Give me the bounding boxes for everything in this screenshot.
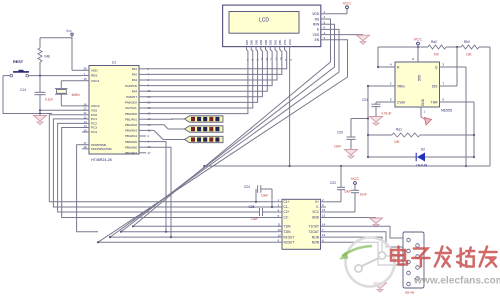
svg-text:PA4: PA4: [132, 89, 138, 93]
svg-text:7: 7: [443, 82, 445, 86]
wire R2IN: [326, 242, 406, 265]
wire LCD VDD to VCC: [329, 9, 347, 14]
svg-text:Rb0: Rb0: [464, 40, 470, 44]
svg-text:PA1: PA1: [132, 67, 138, 71]
svg-text:GND: GND: [421, 98, 425, 106]
svg-text:Ra1: Ra1: [396, 128, 402, 132]
resistor Rb0: [461, 40, 490, 57]
svg-text:PB0/AN0: PB0/AN0: [125, 112, 137, 116]
svg-text:PB1/AN1: PB1/AN1: [125, 117, 137, 121]
wire LCD col 10: [289, 47, 291, 166]
svg-text:D2: D2: [421, 148, 425, 152]
power VCC4: [326, 176, 367, 212]
wire LCD ctrl 4: [97, 40, 348, 243]
svg-text:1: 1: [424, 110, 426, 114]
wire PA3-DB5 data bus: [146, 47, 277, 80]
svg-text:T2OUT: T2OUT: [309, 230, 320, 234]
svg-text:CVolt: CVolt: [397, 100, 405, 104]
svg-text:5: 5: [390, 98, 392, 102]
wire key3: [146, 130, 185, 139]
svg-text:12: 12: [84, 115, 88, 119]
IC U2 NE555 timer: [390, 57, 452, 114]
capacitor C25: [249, 205, 263, 221]
IC U3 MAX232: [276, 198, 326, 249]
wire DIS: [440, 47, 458, 86]
capacitor C24: [244, 185, 273, 208]
svg-text:RS: RS: [315, 17, 320, 21]
svg-text:R2IN: R2IN: [312, 240, 320, 244]
resistor R1: [38, 38, 50, 76]
svg-text:DB3: DB3: [264, 39, 268, 45]
wire serial1: [133, 225, 276, 227]
svg-text:VCC: VCC: [343, 1, 352, 6]
svg-text:11: 11: [278, 223, 281, 227]
svg-text:10K: 10K: [394, 140, 401, 144]
svg-text:18: 18: [84, 145, 88, 149]
wire R1IN: [326, 237, 406, 256]
svg-text:V+: V+: [315, 200, 319, 204]
svg-text:PA6/SDA: PA6/SDA: [125, 101, 137, 105]
svg-text:HT46R24-28: HT46R24-28: [91, 158, 112, 162]
wire LCD ctrl 3: [109, 29, 339, 238]
svg-text:4MHz: 4MHz: [72, 93, 81, 97]
svg-text:VSS: VSS: [91, 109, 97, 113]
svg-text:THR: THR: [431, 100, 438, 104]
diode D2: [367, 148, 475, 168]
wire PA1-DB7 data bus: [146, 47, 287, 69]
wire PC3 to MAX232: [62, 128, 276, 218]
svg-text:2: 2: [390, 82, 392, 86]
svg-text:C1-: C1-: [284, 205, 289, 209]
wire PC2 to MAX232: [58, 123, 276, 212]
svg-text:10nF: 10nF: [334, 145, 341, 149]
svg-text:GND: GND: [312, 216, 320, 220]
wire serial2: [121, 231, 276, 233]
svg-text:15: 15: [84, 77, 88, 81]
wire THR: [440, 102, 475, 157]
svg-text:10uF: 10uF: [360, 193, 367, 197]
ground GND6: [374, 283, 387, 292]
svg-text:V-: V-: [316, 205, 319, 209]
svg-text:2: 2: [148, 134, 150, 138]
svg-text:VDD: VDD: [91, 69, 98, 73]
svg-text:PA7/SCL: PA7/SCL: [125, 106, 137, 110]
LCD module LCD1: [223, 5, 329, 47]
wire PC0 to MAX232: [49, 115, 276, 202]
svg-text:PB6/AN6: PB6/AN6: [125, 145, 137, 149]
svg-text:PB7/AN7: PB7/AN7: [125, 151, 137, 155]
svg-text:2: 2: [322, 198, 324, 202]
wire PA6-DB2 data bus: [146, 47, 262, 97]
svg-text:28: 28: [84, 67, 88, 71]
LCD pin numbers: [246, 57, 293, 61]
wire key1: [146, 118, 185, 120]
svg-text:3: 3: [443, 63, 445, 67]
svg-text:C21: C21: [362, 98, 368, 102]
wire Q out: [440, 67, 467, 166]
resistor Ra1: [367, 128, 475, 144]
svg-text:10K: 10K: [466, 53, 473, 57]
node key label 1: [185, 116, 224, 122]
wire OSC1: [61, 81, 82, 89]
svg-text:DB1: DB1: [273, 39, 277, 45]
wire 555 reset loop: [377, 47, 418, 68]
svg-text:Ra0: Ra0: [431, 40, 437, 44]
svg-text:13: 13: [322, 233, 326, 237]
svg-text:C1+: C1+: [284, 200, 290, 204]
svg-text:R1OUT: R1OUT: [284, 235, 295, 239]
wire T1OUT: [326, 226, 406, 238]
wire serial4: [98, 241, 276, 243]
svg-text:10uF: 10uF: [261, 194, 268, 198]
capacitor C21: [362, 98, 395, 116]
wire PA9-DB0 data bus: [146, 47, 248, 114]
svg-text:1N4148: 1N4148: [416, 164, 427, 168]
svg-text:14: 14: [322, 222, 326, 226]
wire PD0 serial: [77, 145, 98, 232]
svg-text:C2+: C2+: [284, 210, 290, 214]
wire PA2-DB6 data bus: [146, 47, 282, 75]
svg-text:15: 15: [322, 214, 326, 218]
svg-text:TRIG: TRIG: [397, 84, 405, 88]
wire LCD VSS: [329, 34, 363, 36]
svg-text:16: 16: [84, 102, 88, 106]
svg-text:DB2: DB2: [269, 39, 273, 45]
svg-text:C24: C24: [244, 185, 250, 189]
svg-text:T1OUT: T1OUT: [309, 225, 320, 229]
svg-text:NE555: NE555: [441, 109, 452, 113]
svg-text:T1IN: T1IN: [284, 225, 292, 229]
wire PC1 to MAX232: [53, 119, 276, 207]
ground GND5: [326, 218, 383, 228]
svg-text:PC3: PC3: [91, 126, 97, 130]
svg-text:VCC: VCC: [414, 37, 423, 42]
svg-text:T2IN: T2IN: [284, 230, 292, 234]
svg-text:PB4/AN4: PB4/AN4: [125, 134, 137, 138]
svg-text:27: 27: [148, 151, 152, 155]
svg-text:14: 14: [84, 124, 88, 128]
switch RESET: [3, 60, 29, 77]
svg-text:13: 13: [274, 57, 278, 61]
svg-text:10: 10: [84, 128, 88, 132]
svg-text:PA5/INT: PA5/INT: [126, 95, 137, 99]
svg-text:RES: RES: [91, 74, 97, 78]
svg-text:Q: Q: [435, 65, 438, 69]
wire PA8-DB0 data bus: [146, 47, 253, 108]
wire PA5-DB3 data bus: [146, 47, 267, 92]
svg-text:R1IN: R1IN: [312, 235, 320, 239]
svg-text:VDD: VDD: [312, 12, 320, 16]
wire LCD ctrl 2: [120, 24, 335, 233]
wire T2OUT: [326, 232, 406, 247]
wire OSC2: [61, 94, 82, 106]
wire AN6 down: [146, 142, 167, 233]
crystal Y1: [55, 89, 80, 97]
capacitor C20: [334, 117, 369, 149]
svg-text:10uF: 10uF: [251, 217, 258, 221]
svg-text:DIS: DIS: [432, 84, 438, 88]
connector J1 DB9: [403, 232, 424, 295]
node key label 3: [185, 136, 224, 142]
svg-text:VCC: VCC: [312, 210, 319, 214]
svg-text:REST: REST: [13, 60, 24, 64]
svg-text:www.elecfans.com: www.elecfans.com: [413, 276, 500, 287]
ground 555 pin1: [421, 107, 432, 125]
wire AN7 down: [146, 147, 172, 238]
svg-text:DB4: DB4: [259, 39, 263, 45]
svg-text:0.1uF: 0.1uF: [45, 98, 53, 102]
svg-text:PD0/PWM0: PD0/PWM0: [91, 143, 106, 147]
svg-text:U1: U1: [112, 61, 116, 65]
svg-text:VDD: VDD: [288, 39, 292, 45]
svg-text:8: 8: [412, 57, 414, 61]
wire Rb0 down: [489, 47, 491, 166]
resistor Ra0: [418, 40, 461, 57]
svg-text:PB3/AN3: PB3/AN3: [125, 129, 137, 133]
ground GND1: [34, 112, 47, 124]
wire LCD ctrl 1: [132, 19, 331, 227]
svg-text:DB6: DB6: [250, 39, 254, 45]
wire serial3: [110, 236, 276, 238]
svg-text:C14: C14: [20, 88, 26, 92]
svg-text:C20: C20: [337, 131, 343, 135]
wire PA4-DB4 data bus: [146, 47, 272, 86]
svg-text:C2-: C2-: [284, 216, 289, 220]
svg-text:Vcc: Vcc: [66, 29, 72, 33]
svg-text:PB5/AN5: PB5/AN5: [125, 140, 137, 144]
svg-text:PA2: PA2: [132, 73, 138, 77]
svg-text:04E: 04E: [45, 55, 51, 59]
svg-text:DB5: DB5: [254, 39, 258, 45]
wire reset net: [29, 75, 82, 77]
svg-text:VSS: VSS: [313, 33, 320, 37]
svg-text:C25: C25: [249, 205, 255, 209]
power VCC2: [343, 1, 352, 9]
svg-text:4: 4: [390, 63, 392, 67]
wire key2: [146, 125, 185, 129]
ground GND3: [370, 117, 383, 126]
IC U1 HT46R24 MCU: [82, 61, 151, 162]
svg-text:10uF: 10uF: [344, 190, 351, 194]
svg-text:PA3/PFD: PA3/PFD: [125, 84, 137, 88]
power VCC3: [414, 37, 423, 63]
capacitor C22: [326, 166, 351, 202]
wire VSS net: [39, 109, 82, 111]
svg-text:OSC1: OSC1: [91, 79, 100, 83]
svg-text:EN: EN: [315, 38, 320, 42]
svg-text:5: 5: [284, 59, 288, 61]
svg-text:DB0: DB0: [278, 39, 282, 45]
svg-text:0.01uF: 0.01uF: [382, 112, 392, 116]
svg-text:LCD: LCD: [259, 17, 269, 23]
svg-text:PC1: PC1: [91, 117, 97, 121]
svg-text:10: 10: [278, 228, 282, 232]
svg-text:6: 6: [443, 98, 445, 102]
wire left loop: [3, 76, 52, 114]
svg-text:VCC: VCC: [351, 176, 360, 181]
svg-text:PC4: PC4: [91, 130, 97, 134]
svg-text:16: 16: [322, 208, 326, 212]
svg-text:R/W: R/W: [313, 23, 320, 27]
svg-text:PA3: PA3: [132, 78, 138, 82]
svg-text:PB2/AN2: PB2/AN2: [125, 123, 137, 127]
node key label 2: [185, 126, 224, 132]
svg-text:22: 22: [84, 107, 88, 111]
node watermark url: [413, 276, 500, 287]
wire PA7-DB1 data bus: [146, 47, 258, 103]
wire rail: [203, 165, 490, 167]
wire vcc to VDD: [40, 38, 82, 71]
svg-text:12: 12: [278, 233, 282, 237]
svg-text:DB7: DB7: [245, 39, 249, 45]
svg-text:R2OUT: R2OUT: [284, 240, 295, 244]
svg-text:PD1/PWM1/TMR: PD1/PWM1/TMR: [91, 147, 112, 151]
svg-text:14: 14: [279, 57, 283, 61]
capacitor C14: [20, 76, 53, 114]
svg-text:700: 700: [434, 53, 440, 57]
svg-text:OSC2: OSC2: [91, 104, 100, 108]
svg-text:VSS: VSS: [283, 39, 287, 45]
svg-text:C22: C22: [330, 181, 336, 185]
ground GND2: [357, 35, 370, 44]
node watermark text CJK: [391, 247, 497, 267]
power VCC1: [66, 29, 73, 38]
ground GND4: [345, 150, 358, 159]
node watermark logo: [339, 238, 395, 287]
svg-text:555: 555: [418, 75, 422, 81]
wire TRIG: [367, 85, 395, 157]
svg-text:DB-9M: DB-9M: [405, 291, 415, 295]
